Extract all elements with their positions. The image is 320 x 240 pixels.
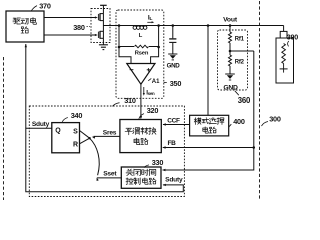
svg-text:CCF: CCF [167, 117, 180, 124]
chip boundary 300 (dash-dot outline) [3, 57, 5, 200]
feedback divider dashed box 360 [218, 30, 248, 90]
svg-text:Sduty: Sduty [165, 177, 183, 184]
mode sense wire [207, 26, 209, 116]
svg-text:Rf1: Rf1 [235, 37, 245, 43]
svg-text:R: R [73, 142, 78, 149]
A1 output wire [140, 84, 142, 118]
Sset wire [90, 138, 100, 175]
svg-text:320: 320 [147, 106, 159, 115]
svg-text:390: 390 [287, 34, 298, 42]
feedback tap wire [229, 43, 231, 55]
wire driver to PMOS gate [44, 17, 95, 19]
svg-text:380: 380 [73, 23, 85, 32]
svg-text:FB: FB [167, 140, 176, 147]
VIN supply bar [102, 6, 104, 14]
FB wire to 320 [163, 147, 254, 149]
resistor Rf1 [229, 26, 231, 33]
Sres wire [80, 131, 90, 139]
svg-text:400: 400 [233, 117, 245, 126]
SR latch 340 [52, 123, 80, 153]
svg-text:GND: GND [167, 63, 181, 70]
svg-text:300: 300 [269, 114, 281, 123]
load 390 [280, 31, 287, 38]
transistor NMOS lower [97, 32, 99, 38]
svg-text:360: 360 [238, 96, 251, 105]
Sduty wire [26, 128, 184, 191]
transistor PMOS upper [97, 14, 99, 20]
svg-text:Rsen: Rsen [135, 50, 149, 56]
node Cout junction [172, 24, 175, 27]
left branch wire [118, 26, 120, 48]
node L right junction [157, 24, 160, 27]
svg-text:370: 370 [39, 2, 51, 11]
power ground [99, 44, 108, 46]
off-time control circuit box 330 [121, 167, 161, 188]
smooth transition circuit box 320 [120, 120, 161, 153]
node Rsen right junction [157, 46, 160, 49]
svg-text:Isen: Isen [146, 90, 155, 97]
svg-text:L: L [139, 33, 143, 39]
svg-text:Sres: Sres [103, 129, 117, 136]
FB wire [163, 51, 254, 170]
svg-text:S: S [73, 128, 78, 135]
CCF wire [163, 124, 190, 126]
divider ground [225, 73, 235, 75]
resistor Rf2 [229, 55, 232, 66]
svg-text:IL: IL [148, 15, 153, 22]
svg-text:Q: Q [55, 128, 61, 135]
node SW junction [118, 24, 121, 27]
driver circuit box 370 [6, 11, 44, 42]
switch node / output wire [103, 25, 283, 27]
Isen current label [143, 87, 145, 94]
wire driver to NMOS gate [44, 34, 95, 36]
control loop dashed box 310 [29, 106, 184, 197]
svg-text:A1: A1 [152, 79, 160, 85]
svg-text:350: 350 [170, 79, 182, 88]
node divider junction [229, 24, 232, 27]
svg-text:Sset: Sset [103, 170, 117, 177]
transistor pair dashed box 380 [91, 9, 110, 43]
mode select circuit box 400 [190, 115, 229, 136]
svg-text:GND: GND [223, 84, 238, 91]
svg-text:Sduty: Sduty [32, 121, 50, 128]
load wire [283, 26, 285, 32]
node mode-sense junction [207, 24, 210, 27]
svg-text:310: 310 [124, 96, 136, 105]
svg-text:Vout: Vout [223, 16, 238, 23]
current sense dashed box [116, 10, 164, 98]
right branch wire [158, 26, 160, 48]
output capacitor [172, 26, 174, 39]
svg-text:340: 340 [71, 111, 83, 120]
capacitor ground [168, 53, 177, 55]
svg-text:330: 330 [152, 158, 164, 167]
op-amp A1 [119, 47, 131, 64]
inductor L [133, 26, 137, 30]
node FB junction [253, 146, 256, 149]
half-bridge vertical wire [102, 14, 104, 45]
svg-text:Rf2: Rf2 [235, 60, 245, 66]
resistor Rsen [119, 46, 134, 48]
node Rsen left junction [118, 46, 121, 49]
